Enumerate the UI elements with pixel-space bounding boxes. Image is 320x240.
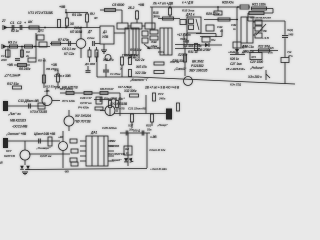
- svg-text:∠5: ∠5: [54, 68, 59, 72]
- svg-text:∆K: ∆K: [28, 20, 33, 24]
- svg-text:КЗч 27Д: КЗч 27Д: [230, 83, 242, 87]
- svg-text:С2Е С17: С2Е С17: [80, 96, 92, 100]
- svg-text:R1 13к: R1 13к: [72, 13, 82, 17]
- svg-text:2Гк: 2Гк: [287, 54, 293, 58]
- svg-text:КП 303В: КП 303В: [70, 30, 83, 34]
- svg-text:МВ К22323: МВ К22323: [10, 119, 26, 123]
- svg-text:R17 51к: R17 51к: [7, 82, 19, 86]
- svg-text:Я: Я: [0, 161, 3, 165]
- svg-text:КС7: КС7: [6, 149, 12, 153]
- svg-text:51к: 51к: [147, 128, 152, 132]
- svg-text:1к: 1к: [233, 27, 236, 31]
- svg-text:ЖЛ 47к: ЖЛ 47к: [135, 65, 147, 69]
- svg-text:„Универс“: „Универс“: [35, 146, 51, 150]
- svg-text:У: У: [120, 67, 123, 71]
- svg-text:„Лин“ вх: „Лин“ вх: [7, 112, 21, 116]
- svg-text:R28 Юк: R28 Юк: [222, 1, 234, 5]
- svg-text:Дп1: Дп1: [37, 29, 44, 33]
- svg-text:СОЗ: СОЗ: [158, 50, 164, 54]
- svg-text:Д9 1ВВ: Д9 1ВВ: [84, 62, 96, 66]
- svg-text:0к8: 0к8: [125, 147, 130, 151]
- svg-text:240х: 240х: [158, 97, 166, 101]
- svg-text:ЖУ ЗУ0204: ЖУ ЗУ0204: [74, 114, 91, 118]
- svg-text:Эта: Эта: [153, 15, 160, 19]
- svg-text:Х2Д: Х2Д: [286, 28, 293, 32]
- svg-text:ЛУ2 (ЛЮ): ЛУ2 (ЛЮ): [59, 87, 73, 91]
- svg-text:С21 22мк+9В: С21 22мк+9В: [128, 107, 147, 111]
- svg-text:ДА1: ДА1: [90, 131, 97, 135]
- svg-text:R2 1к: R2 1к: [11, 29, 19, 33]
- svg-text:Р121582: Р121582: [191, 64, 204, 68]
- svg-text:R21 182к: R21 182к: [252, 3, 266, 7]
- svg-text:ДВ 2220: ДВ 2220: [241, 50, 254, 54]
- svg-text:К26 1к: К26 1к: [230, 57, 239, 61]
- svg-text:Л27 1к: Л27 1к: [177, 53, 188, 57]
- svg-text:2,0мк: 2,0мк: [86, 36, 95, 40]
- svg-text:ДА1 к: ДА1 к: [185, 13, 195, 17]
- svg-text:Д7: Д7: [87, 30, 92, 34]
- svg-text:27к: 27к: [267, 51, 273, 55]
- svg-text:C2: C2: [17, 21, 21, 25]
- svg-text:РЧ 420к: РЧ 420к: [78, 106, 89, 110]
- svg-text:С2мк х 30В: С2мк х 30В: [54, 74, 71, 78]
- svg-text:R31 1к: R31 1к: [188, 50, 198, 54]
- svg-text:ВК.ЗМ2: ВК.ЗМ2: [192, 60, 204, 64]
- svg-text:ЛЕ: ЛЕ: [262, 29, 267, 33]
- svg-text:R3 2 к: R3 2 к: [8, 41, 17, 45]
- svg-text:∠7 0,1мкФ: ∠7 0,1мкФ: [4, 74, 21, 78]
- svg-text:+ 0мЗ Ж Шт: + 0мЗ Ж Шт: [150, 167, 167, 171]
- svg-text:+9В: +9В: [44, 89, 50, 93]
- svg-text:К22ГСВ: К22ГСВ: [4, 154, 16, 158]
- svg-text:ЖВ 47к: ЖВ 47к: [102, 58, 114, 62]
- svg-text:Лк +7 вп +ДВ: Лк +7 вп +ДВ: [152, 2, 174, 6]
- svg-text:Р41 43к *: Р41 43к *: [112, 97, 125, 101]
- svg-text:Z7: Z7: [1, 19, 6, 23]
- svg-text:+9В: +9В: [7, 63, 13, 67]
- svg-text:„Лазер“: „Лазер“: [156, 123, 168, 127]
- svg-text:100 Д: 100 Д: [133, 129, 141, 133]
- svg-text:С2У 1500: С2У 1500: [250, 60, 263, 64]
- svg-text:C1: C1: [10, 21, 14, 25]
- svg-text:УЛВ: УЛВ: [102, 35, 109, 39]
- svg-text:С1 47мк: С1 47мк: [110, 72, 121, 76]
- svg-text:ГУ2: ГУ2: [110, 139, 116, 143]
- svg-text:(04 485 Л7За: (04 485 Л7За: [183, 44, 202, 48]
- svg-text:2Б.2: 2Б.2: [127, 6, 135, 10]
- svg-text:ГМХНВ Г: ГМХНВ Г: [122, 54, 136, 58]
- svg-text:„Синий“: „Синий“: [173, 67, 187, 71]
- svg-text:+ВУ: +ВУ: [58, 135, 64, 139]
- svg-text:0,Р47 мк: 0,Р47 мк: [80, 101, 92, 105]
- svg-text:„Родина“: „Родина“: [249, 66, 264, 70]
- svg-text:2к: 2к: [25, 54, 30, 58]
- svg-text:05 «ЧЕРНОЕ»: 05 «ЧЕРНОЕ»: [226, 67, 246, 71]
- svg-text:0,047 мк: 0,047 мк: [40, 154, 52, 158]
- svg-text:+9В: +9В: [59, 5, 66, 9]
- svg-text:+: +: [24, 21, 27, 25]
- svg-text:2200: 2200: [0, 58, 7, 62]
- svg-text:R18 15к: R18 15к: [130, 48, 142, 52]
- svg-text:+ВВ: +ВВ: [183, 40, 190, 44]
- svg-text:«+7В: «+7В: [118, 107, 124, 111]
- svg-text:R29 270к: R29 270к: [206, 12, 220, 16]
- svg-text:„Компенс“ Г: „Компенс“ Г: [129, 78, 149, 82]
- svg-text:Х32 300к: Х32 300к: [123, 89, 137, 93]
- svg-text:*ВУ ЛУГ2В: *ВУ ЛУГ2В: [75, 120, 91, 124]
- svg-text:+ 9 В: + 9 В: [262, 36, 270, 40]
- svg-text:КВ ЮОЗУ: КВ ЮОЗУ: [100, 87, 115, 91]
- svg-text:„Основа“ +9В: „Основа“ +9В: [5, 132, 27, 136]
- svg-text:ЛЗВ 33к: ЛЗВ 33к: [171, 59, 184, 63]
- svg-text:ЗВУ 108/135: ЗВУ 108/135: [189, 69, 208, 73]
- svg-text:ХЗч 280 х: ХЗч 280 х: [247, 75, 262, 79]
- svg-text:-ОСС2-МВ: -ОСС2-МВ: [12, 125, 28, 129]
- svg-text:4 0мА Ж 10к: 4 0мА Ж 10к: [148, 148, 166, 152]
- svg-text:+17 /ПВт: +17 /ПВт: [177, 33, 191, 37]
- svg-text:VТЗ КТЗ155: VТЗ КТЗ155: [30, 110, 47, 114]
- svg-text:Г1В: Г1В: [268, 46, 274, 50]
- svg-text:КТ С2к: КТ С2к: [64, 52, 74, 56]
- svg-text:РУ2: РУ2: [158, 92, 164, 96]
- svg-text:+ЗВ: +ЗВ: [51, 63, 58, 67]
- svg-text:R8 240к: R8 240к: [19, 67, 31, 71]
- svg-text:+2мВ: +2мВ: [228, 50, 236, 54]
- svg-text:Д30 С1к: Д30 С1к: [241, 45, 254, 49]
- svg-text:R5 +9.: R5 +9.: [38, 59, 47, 63]
- svg-text:К20 2к: К20 2к: [135, 58, 145, 62]
- svg-text:ЛУЧ 120к: ЛУЧ 120к: [61, 99, 75, 103]
- svg-text:ЖЗ СВ2ГСВ: ЖЗ СВ2ГСВ: [107, 152, 126, 156]
- svg-text:С2Г 1мк: С2Г 1мк: [230, 62, 242, 66]
- svg-text:зн: зн: [94, 16, 98, 20]
- svg-text:ЛУ1 КТ315В: ЛУ1 КТ315В: [109, 102, 128, 106]
- svg-text:КС20ВВ: КС20ВВ: [108, 144, 120, 148]
- svg-text:C13 61мк: C13 61мк: [147, 46, 161, 50]
- svg-text:14В: 14В: [288, 33, 294, 37]
- svg-text:Д1: Д1: [102, 30, 107, 34]
- svg-text:VT1 VT2 КТ315Б: VT1 VT2 КТ315Б: [28, 11, 54, 15]
- svg-text:-9В: -9В: [64, 170, 69, 174]
- svg-text:к + / Д В: к + / Д В: [182, 1, 194, 5]
- svg-text:С2В 220мк: С2В 220мк: [102, 126, 117, 130]
- svg-text:C6 0,1 мк: C6 0,1 мк: [62, 47, 76, 51]
- svg-text:„Заряд“: „Заряд“: [109, 158, 122, 162]
- svg-text:+9В: +9В: [138, 3, 145, 7]
- svg-text:R7 470к: R7 470к: [58, 38, 69, 42]
- svg-text:Юк: Юк: [211, 38, 216, 42]
- svg-text:=-9В: =-9В: [150, 135, 157, 139]
- svg-text:C5 6800: C5 6800: [112, 3, 124, 7]
- svg-text:С13 ДВмн=9В: С13 ДВмн=9В: [18, 99, 39, 103]
- svg-text:Х22 18к: Х22 18к: [134, 71, 147, 75]
- svg-text:Ц0мн+24В +9В: Ц0мн+24В +9В: [34, 132, 56, 136]
- svg-text:2В +7 вп + 9 В «Ю =+9 В: 2В +7 вп + 9 В «Ю =+9 В: [144, 86, 180, 90]
- svg-text:ЗУ4: ЗУ4: [251, 55, 256, 59]
